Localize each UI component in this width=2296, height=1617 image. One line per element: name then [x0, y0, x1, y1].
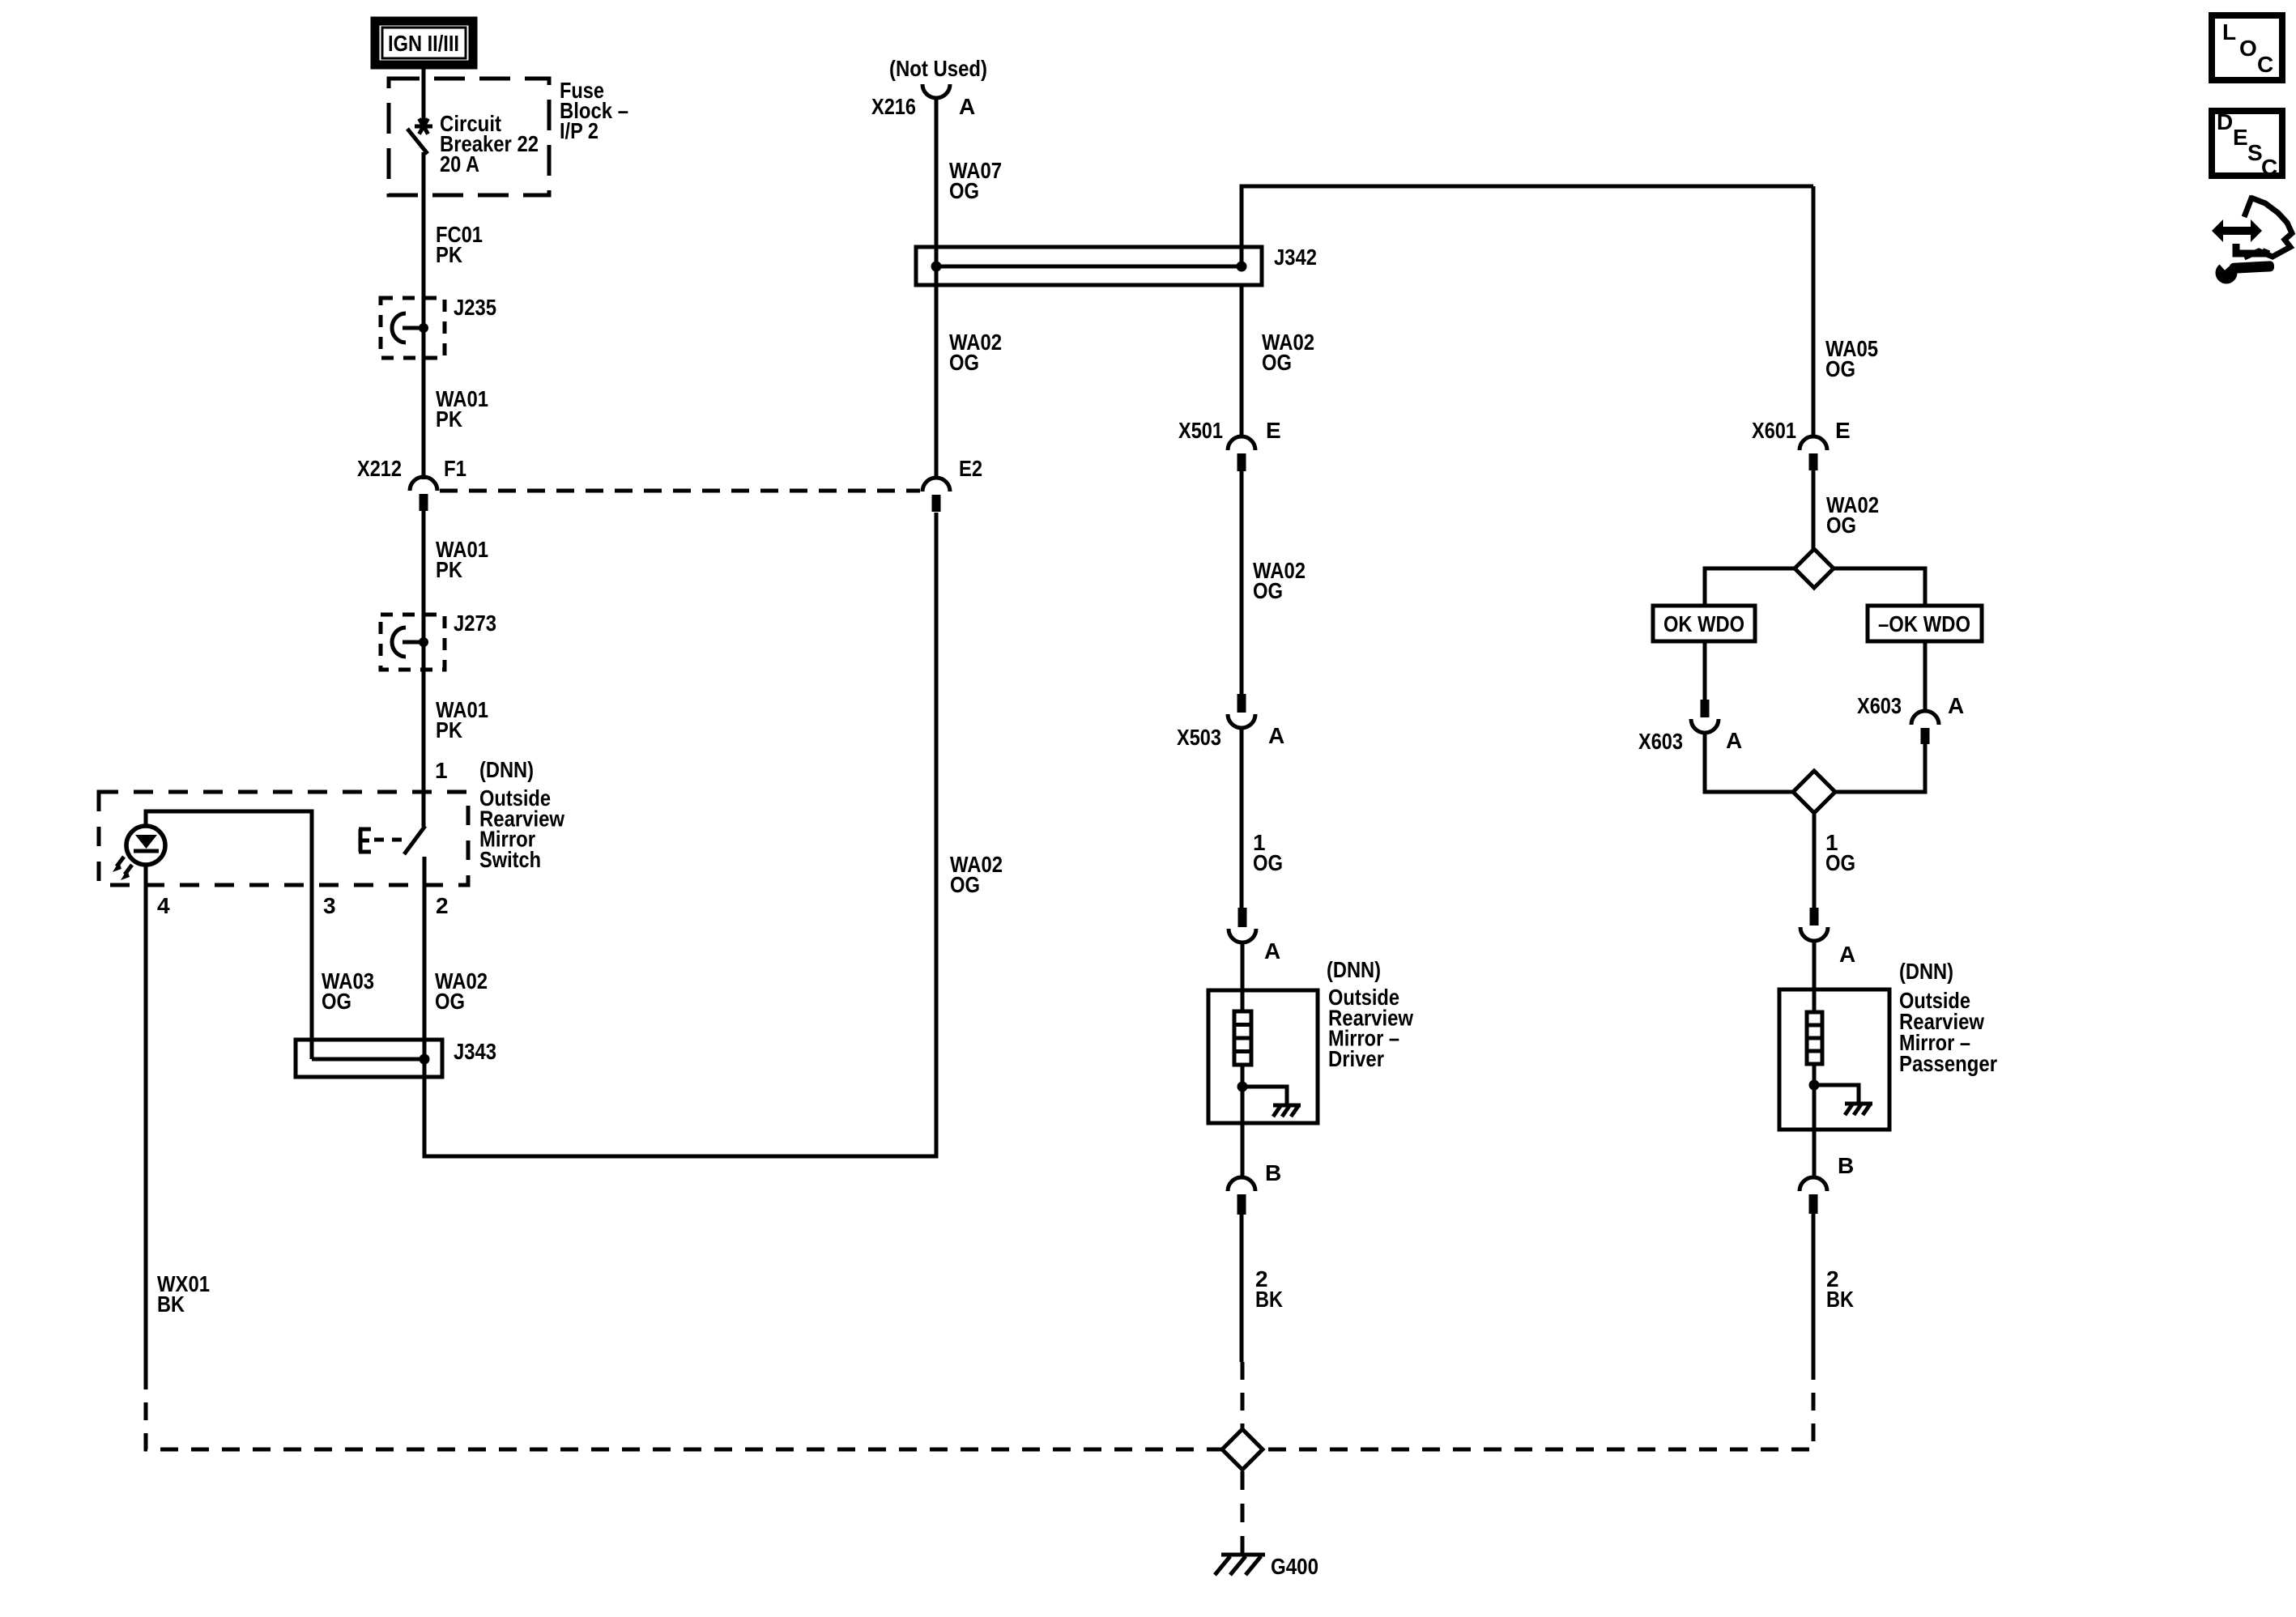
- switch actuator letter E: [359, 829, 371, 852]
- label X503 terminal A letter: [1268, 723, 1284, 748]
- svg-text:B: B: [1265, 1160, 1281, 1185]
- indicator LED circle: [126, 826, 165, 865]
- wire X603 right to merge diamond: [1835, 744, 1925, 792]
- svg-text:J273: J273: [454, 611, 496, 636]
- svg-text:X603: X603: [1638, 729, 1683, 754]
- svg-text:OG: OG: [949, 350, 979, 375]
- svg-text:Passenger: Passenger: [1899, 1051, 1997, 1076]
- label E2: [959, 456, 982, 481]
- wire WA02 OG X501 to X503: [1240, 471, 1244, 695]
- adjust mirror icon double arrow: [2212, 219, 2262, 242]
- label FC01 PK: [436, 222, 483, 267]
- svg-text:Driver: Driver: [1328, 1046, 1384, 1071]
- adjust mirror icon bracket: [2236, 244, 2267, 253]
- junction dot J342 right: [1237, 262, 1247, 272]
- connector X216 cavity A not used: [922, 84, 950, 98]
- dashed wire junction to G400: [1241, 1471, 1245, 1553]
- dashed wire driver mirror to G400 junction: [1241, 1362, 1245, 1432]
- wire OK WDO to X603 left: [1703, 641, 1707, 700]
- driver mirror heater element: [1234, 1011, 1251, 1065]
- connector X212 terminal F1: [410, 477, 437, 511]
- wire heater to passenger mirror terminal B: [1813, 1064, 1817, 1177]
- passenger mirror internal ground wire: [1814, 1085, 1859, 1103]
- svg-text:PK: PK: [436, 242, 462, 267]
- svg-text:(DNN): (DNN): [1327, 957, 1381, 982]
- svg-text:(DNN): (DNN): [479, 757, 534, 782]
- label WA07 OG: [949, 158, 1002, 203]
- wire switch pin 2 to J343: [424, 513, 936, 1156]
- label Outside Rearview Mirror Passenger: [1899, 988, 1997, 1076]
- label WA03 OG: [322, 968, 374, 1014]
- svg-text:2: 2: [436, 893, 449, 918]
- wire 2 BK driver mirror down: [1240, 1215, 1244, 1362]
- label X501 terminal E letter: [1266, 418, 1281, 443]
- svg-text:OG: OG: [1262, 350, 1292, 375]
- label driver mirror terminal A letter: [1264, 938, 1280, 964]
- label Circuit Breaker 22 20 A: [440, 111, 539, 177]
- label F1: [444, 456, 466, 481]
- circuit breaker 22 contact asterisk: [415, 119, 432, 134]
- label 1 OG driver: [1253, 830, 1283, 875]
- wire 1 OG merge to passenger mirror: [1813, 813, 1817, 908]
- svg-text:G400: G400: [1271, 1554, 1318, 1579]
- svg-text:BK: BK: [1255, 1287, 1283, 1312]
- label passenger mirror terminal B letter: [1838, 1153, 1854, 1178]
- svg-text:(Not Used): (Not Used): [889, 56, 987, 81]
- wire splitter left branch to OK WDO: [1705, 568, 1795, 606]
- svg-text:E: E: [1835, 418, 1851, 443]
- label WA02 OG switch output: [435, 968, 488, 1014]
- svg-text:OG: OG: [950, 872, 980, 897]
- label WX01 BK: [157, 1271, 210, 1317]
- label X601: [1752, 418, 1796, 443]
- LED light arrow 1: [113, 857, 124, 872]
- label switch pin 4: [157, 893, 170, 918]
- svg-text:X212: X212: [357, 456, 402, 481]
- label X601 terminal E letter: [1835, 418, 1851, 443]
- svg-text:X603: X603: [1857, 693, 1902, 718]
- adjust mirror icon wrench: [2216, 254, 2275, 284]
- label WA02 OG below J342 left: [949, 330, 1002, 375]
- legend box DESC: [2212, 109, 2282, 180]
- label J273: [454, 611, 496, 636]
- svg-text:4: 4: [157, 893, 170, 918]
- switch blade: [404, 826, 425, 854]
- svg-text:3: 3: [323, 893, 336, 918]
- splice J235 dashed box: [381, 298, 445, 358]
- label (DNN) driver mirror: [1327, 957, 1381, 982]
- svg-text:OG: OG: [435, 989, 465, 1014]
- svg-text:A: A: [1268, 723, 1284, 748]
- wire X603 left to merge diamond: [1705, 733, 1793, 792]
- svg-text:PK: PK: [436, 557, 462, 582]
- label X501: [1178, 418, 1223, 443]
- label X603 left terminal A letter: [1726, 728, 1742, 753]
- label X603 left: [1638, 729, 1683, 754]
- svg-text:OG: OG: [1825, 356, 1855, 381]
- svg-text:A: A: [1264, 938, 1280, 964]
- svg-text:20 A: 20 A: [440, 151, 479, 177]
- label passenger mirror terminal A letter: [1839, 942, 1855, 967]
- passenger mirror internal ground: [1845, 1104, 1872, 1115]
- label WA02 OG passenger branch: [1826, 492, 1879, 538]
- LED light arrow 2: [121, 865, 132, 880]
- label J342: [1274, 245, 1317, 270]
- svg-text:X601: X601: [1752, 418, 1796, 443]
- svg-text:(DNN): (DNN): [1899, 959, 1953, 984]
- svg-text:X501: X501: [1178, 418, 1223, 443]
- splice J273: [392, 628, 428, 657]
- label WA01 PK middle: [436, 537, 488, 582]
- label J235: [454, 295, 496, 320]
- svg-text:OG: OG: [1253, 850, 1283, 875]
- wire J342 up and right to passenger branch: [1242, 186, 1813, 266]
- svg-text:A: A: [1726, 728, 1742, 753]
- wire from IGN feed to circuit breaker: [422, 68, 426, 122]
- junction dot driver mirror ground: [1237, 1082, 1248, 1092]
- splice J273 dashed box: [381, 615, 445, 670]
- svg-text:L: L: [2222, 19, 2236, 45]
- label WA02 OG mid branch: [950, 852, 1003, 897]
- connector X603 right terminal A: [1911, 711, 1939, 744]
- svg-text:D: D: [2217, 109, 2233, 134]
- connector passenger mirror terminal A: [1800, 908, 1828, 941]
- legend box LOC: [2212, 15, 2282, 80]
- svg-text:OG: OG: [322, 989, 351, 1014]
- label J343: [454, 1039, 496, 1064]
- svg-text:A: A: [1948, 693, 1964, 718]
- svg-text:OG: OG: [1826, 513, 1856, 538]
- label X212: [357, 456, 402, 481]
- svg-text:BK: BK: [157, 1291, 185, 1317]
- svg-text:E2: E2: [959, 456, 982, 481]
- svg-text:S: S: [2247, 140, 2263, 165]
- option box -OK WDO: [1868, 606, 1982, 641]
- label Outside Rearview Mirror Driver: [1328, 985, 1413, 1071]
- wire WX01 BK LED pin 4 down: [144, 865, 148, 1372]
- power feed box IGN II/III: [375, 21, 473, 65]
- splitter diamond upper: [1795, 549, 1834, 588]
- svg-text:X216: X216: [871, 94, 916, 119]
- wire into driver mirror: [1241, 943, 1245, 1012]
- label X603 right: [1857, 693, 1902, 718]
- label X603 right terminal A letter: [1948, 693, 1964, 718]
- svg-text:X503: X503: [1177, 725, 1221, 750]
- label 1 OG passenger: [1825, 830, 1855, 875]
- svg-text:PK: PK: [436, 717, 462, 743]
- dashed link wire X212 F1 to E2: [440, 489, 920, 493]
- label switch pin 1: [435, 758, 448, 783]
- wire FC01 PK breaker to J235: [422, 152, 426, 479]
- connector driver mirror terminal A: [1229, 908, 1256, 943]
- outside rearview mirror switch dashed box: [99, 792, 468, 885]
- option box OK WDO: [1653, 606, 1755, 641]
- label G400: [1271, 1554, 1318, 1579]
- wire heater to driver mirror terminal B: [1241, 1065, 1245, 1177]
- svg-text:IGN II/III: IGN II/III: [388, 31, 459, 56]
- dashed wire WX01 BK to ground bus: [146, 1372, 1813, 1449]
- fuse block dashed box: [389, 79, 549, 195]
- wire WA01 PK X212 to J273: [422, 511, 426, 827]
- label WA05 OG: [1825, 336, 1878, 381]
- splice box J342: [916, 247, 1262, 285]
- connector E2 on WA02 branch: [922, 478, 950, 512]
- indicator LED diode triangle: [135, 835, 157, 849]
- outside rearview mirror passenger box: [1779, 989, 1889, 1130]
- label (DNN) switch: [479, 757, 534, 782]
- svg-text:E: E: [1266, 418, 1281, 443]
- svg-text:A: A: [959, 94, 975, 119]
- ground G400 symbol: [1215, 1555, 1265, 1575]
- label WA01 PK lower: [436, 697, 488, 743]
- wire 2 BK passenger mirror down: [1812, 1214, 1816, 1362]
- ground bus junction diamond: [1222, 1429, 1263, 1470]
- svg-text:PK: PK: [436, 406, 462, 432]
- passenger mirror heater element: [1807, 1012, 1822, 1064]
- svg-text:B: B: [1838, 1153, 1854, 1178]
- label 2 BK driver: [1255, 1266, 1283, 1312]
- outside rearview mirror driver box: [1208, 990, 1318, 1123]
- svg-text:J342: J342: [1274, 245, 1317, 270]
- svg-text:F1: F1: [444, 456, 466, 481]
- label switch pin 3: [323, 893, 336, 918]
- svg-text:OG: OG: [1253, 578, 1283, 603]
- indicator LED cathode bar: [134, 849, 159, 853]
- wire LED to switch common: [146, 811, 312, 1059]
- wire WA02 OG X601 to splitter: [1812, 470, 1816, 550]
- label Fuse Block - I/P 2: [560, 78, 628, 143]
- label (Not Used): [889, 56, 987, 81]
- junction dot J343: [420, 1054, 430, 1065]
- connector driver mirror terminal B: [1228, 1177, 1255, 1215]
- label switch pin 2: [436, 893, 449, 918]
- driver mirror internal ground wire: [1242, 1087, 1287, 1104]
- label (DNN) passenger mirror: [1899, 959, 1953, 984]
- svg-text:C: C: [2257, 52, 2273, 77]
- connector X601 terminal E: [1800, 436, 1827, 470]
- switch actuator dashed link: [374, 838, 403, 842]
- svg-text:J343: J343: [454, 1039, 496, 1064]
- label WA02 OG driver branch: [1253, 558, 1306, 603]
- svg-text:C: C: [2261, 155, 2277, 180]
- circuit breaker 22 blade: [407, 129, 428, 154]
- svg-text:1: 1: [435, 758, 448, 783]
- merge diamond lower: [1793, 771, 1835, 813]
- splice box J343: [296, 1040, 442, 1077]
- svg-text:J235: J235: [454, 295, 496, 320]
- splice J235: [392, 313, 428, 343]
- wire J342 internal bus: [936, 265, 1242, 269]
- svg-text:–OK WDO: –OK WDO: [1878, 611, 1970, 636]
- svg-text:A: A: [1839, 942, 1855, 967]
- wire WA05 OG down right side: [1812, 186, 1816, 436]
- connector X501 terminal E: [1228, 436, 1255, 471]
- svg-text:E: E: [2233, 125, 2248, 150]
- label WA02 OG below J342 right: [1262, 330, 1314, 375]
- label X216: [871, 94, 916, 119]
- svg-text:I/P 2: I/P 2: [560, 118, 598, 143]
- label Outside Rearview Mirror Switch: [479, 785, 564, 872]
- svg-text:Switch: Switch: [479, 847, 541, 872]
- dashed wire passenger mirror to ground bus: [1812, 1362, 1816, 1448]
- driver mirror internal ground: [1273, 1105, 1301, 1117]
- wire J343 internal bus: [312, 1057, 424, 1062]
- label X216 terminal A: [959, 94, 975, 119]
- junction dot passenger mirror ground: [1809, 1080, 1820, 1091]
- label X503: [1177, 725, 1221, 750]
- junction dot J342 left: [931, 262, 942, 272]
- svg-text:OG: OG: [949, 178, 979, 203]
- wire WA02 OG J342 to X501: [1240, 285, 1244, 436]
- wire 1 OG X503 to driver mirror: [1240, 728, 1244, 908]
- connector passenger mirror terminal B: [1800, 1177, 1827, 1214]
- wire WA07 OG X216 to J342 to E2: [935, 98, 939, 478]
- svg-text:OG: OG: [1825, 850, 1855, 875]
- svg-text:BK: BK: [1826, 1287, 1854, 1312]
- svg-text:OK WDO: OK WDO: [1663, 611, 1744, 636]
- connector X503 terminal A: [1228, 694, 1255, 728]
- wire splitter right branch to -OK WDO: [1833, 568, 1925, 606]
- wire -OK WDO to X603 right: [1923, 641, 1928, 711]
- wire into passenger mirror: [1813, 941, 1817, 1013]
- label driver mirror terminal B letter: [1265, 1160, 1281, 1185]
- label WA01 PK upper: [436, 386, 488, 432]
- label 2 BK passenger: [1826, 1266, 1854, 1312]
- connector X603 left terminal A: [1691, 700, 1719, 733]
- adjust mirror icon mirror outline: [2244, 196, 2292, 257]
- svg-text:O: O: [2239, 36, 2257, 61]
